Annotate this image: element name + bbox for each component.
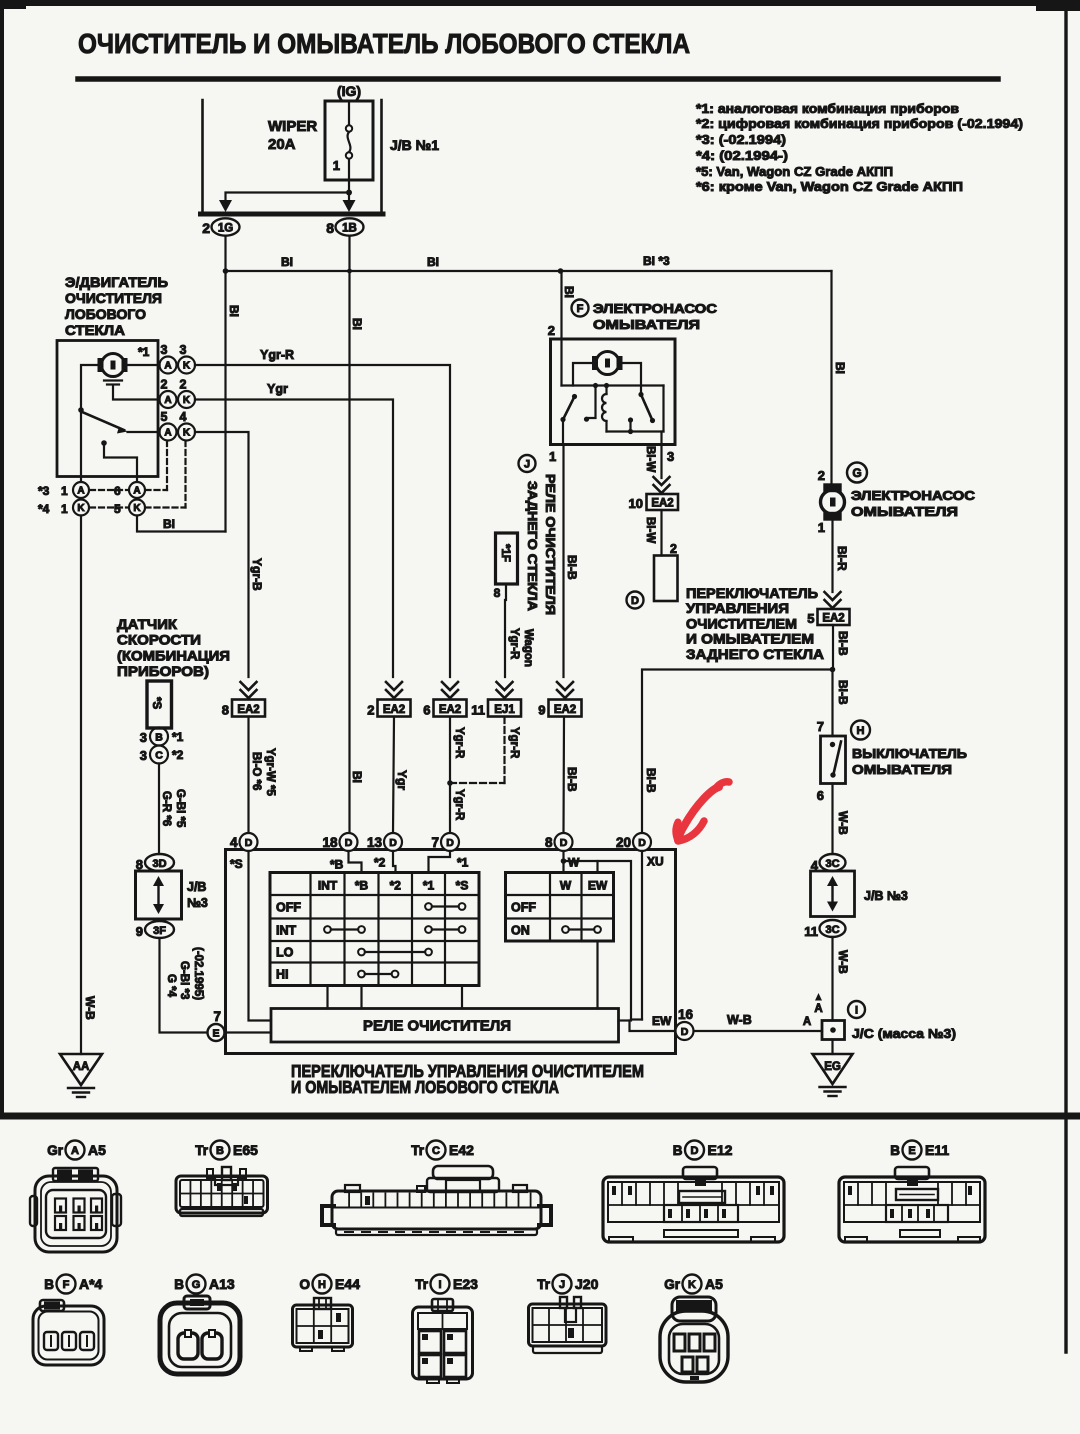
svg-text:9: 9 [136,924,143,939]
svg-text:D: D [560,837,568,849]
svg-text:8: 8 [494,586,501,600]
wire branch to 20D [642,670,833,834]
svg-text:W-B: W-B [727,1013,752,1027]
wire relay to D16 (EW) [619,1019,632,1021]
connector 9 3F [145,921,174,938]
connector letter I [848,1001,865,1018]
svg-text:LO: LO [276,945,294,959]
wiper switch outer box [226,850,676,1054]
wire 3F to E [160,938,208,1033]
svg-text:2: 2 [548,323,555,338]
svg-text:Ygr-R: Ygr-R [453,727,465,759]
title underline [78,76,998,82]
svg-text:BI-B: BI-B [836,631,850,656]
svg-text:Ygr-R: Ygr-R [453,789,465,821]
thick separator line above connector chart [0,1113,1080,1120]
svg-text:C: C [432,1145,440,1157]
right internal vertical [662,386,664,432]
svg-text:G-R *6: G-R *6 [160,791,172,826]
wire below 8EA2 [247,717,249,833]
page frame right border [1064,0,1067,1352]
svg-text:H: H [857,725,865,737]
dashed links K row [90,506,129,508]
wire to washer switch H [831,670,833,737]
wire jumper to 1G [226,193,350,201]
connector 5 EA2 [818,609,850,625]
J/B No3 box (right) [811,871,855,917]
contact ON row [569,928,594,930]
connector 4 D [240,833,258,851]
svg-text:BI: BI [350,318,364,330]
svg-text:ВЫКЛЮЧАТЕЛЬ: ВЫКЛЮЧАТЕЛЬ [852,746,967,761]
connector pin 2 1G [212,218,240,235]
wire D16 to J/C (W-B) [694,1030,823,1032]
svg-text:*1: аналоговая комбинация приб: *1: аналоговая комбинация приборов [696,101,959,116]
svg-text:*6: кроме Van, Wagon CZ Grade: *6: кроме Van, Wagon CZ Grade АКПП [696,179,963,194]
svg-text:J/B: J/B [187,880,206,894]
svg-text:ОМЫВАТЕЛЯ: ОМЫВАТЕЛЯ [593,317,700,332]
svg-text:A: A [133,486,140,497]
connector 16 D [676,1022,694,1040]
connector box *1F [496,533,518,584]
J/B No1 bracket left [201,100,204,212]
wire BI motor to 1G wire [137,516,226,532]
arrow into 9 EA2 [557,682,573,690]
wire W pin to table [562,851,564,873]
arrow into 11 EJ1 [497,682,513,690]
arrow into 5 EA2 [825,592,841,600]
svg-text:E42: E42 [449,1142,474,1158]
scan corner artifact left [0,0,26,9]
wire W node to EW column [564,861,632,1020]
svg-text:EA2: EA2 [554,704,576,716]
svg-text:*4: *4 [38,502,50,516]
svg-text:BI-O *6: BI-O *6 [250,752,262,790]
svg-text:W: W [568,856,580,870]
svg-text:INT: INT [276,923,297,937]
svg-text:11: 11 [804,924,818,939]
wire motor to pin A3 [125,364,160,366]
wire below 6EA2 [449,717,451,833]
svg-text:BI *3: BI *3 [643,254,670,268]
svg-text:BI: BI [833,362,847,374]
connector letter E [208,1024,225,1041]
svg-text:O: O [299,1277,310,1292]
svg-text:*3: (-02.1994): *3: (-02.1994) [696,132,786,147]
svg-text:A: A [164,428,171,439]
wire pump G down [831,520,833,593]
svg-text:10: 10 [629,496,643,511]
washer switch H box [821,736,846,784]
connector 13 D [384,833,402,851]
svg-text:I: I [855,1004,858,1016]
svg-text:ДАТЧИК: ДАТЧИК [117,616,177,632]
wire from fuse to junction [348,180,350,193]
pin 3/3 A,K circles [160,357,177,374]
svg-text:1: 1 [61,484,68,498]
svg-text:Gr: Gr [47,1143,64,1158]
connector 11 EJ1 [488,700,521,717]
svg-text:E44: E44 [335,1276,360,1292]
svg-text:B: B [216,1145,224,1157]
left switch contact and lever [572,394,577,399]
svg-text:D: D [681,1026,689,1038]
svg-text:*B: *B [330,858,344,872]
svg-text:*3: *3 [38,484,50,498]
svg-text:A*4: A*4 [79,1276,103,1292]
svg-text:F: F [63,1279,70,1291]
svg-text:ЭЛЕКТРОНАСОС: ЭЛЕКТРОНАСОС [851,488,976,503]
svg-text:BI-R: BI-R [835,546,849,571]
table stubs to relay [326,986,328,1009]
J/B No3 box (left) [136,871,182,919]
svg-text:5: 5 [807,611,814,626]
svg-text:BI-B: BI-B [644,768,658,793]
svg-text:8: 8 [545,835,553,850]
svg-text:ON: ON [511,924,530,938]
junction node [346,190,352,196]
wire 1G down (BI) [224,236,226,532]
svg-text:E11: E11 [925,1142,949,1158]
svg-text:9: 9 [538,703,545,718]
bottom connector circles 1A,1K,6A,5K [73,482,89,498]
svg-text:3: 3 [140,748,147,763]
svg-text:A5: A5 [88,1142,106,1158]
wire BI horizontal bus [226,270,832,272]
relay coil [605,386,607,395]
svg-text:BI: BI [163,517,175,531]
svg-text:BI: BI [562,286,576,298]
svg-text:ПЕРЕКЛЮЧАТЕЛЬ: ПЕРЕКЛЮЧАТЕЛЬ [686,586,818,601]
wiper relay box (РЕЛЕ ОЧИСТИТЕЛЯ) [271,1009,619,1043]
svg-text:B: B [174,1277,184,1292]
svg-text:Э/ДВИГАТЕЛЬ: Э/ДВИГАТЕЛЬ [65,274,168,290]
svg-text:BI-B: BI-B [836,680,850,705]
svg-text:INT: INT [318,879,338,893]
svg-text:5: 5 [161,410,168,424]
svg-text:EW: EW [652,1014,672,1028]
svg-text:F: F [577,303,584,315]
arrow into 10 EA2 [654,477,670,485]
svg-text:5: 5 [114,502,121,516]
wire sensor down [158,764,160,855]
svg-text:Tr: Tr [195,1143,209,1158]
svg-text:*S: *S [230,857,243,871]
svg-text:*S: *S [150,697,162,709]
svg-text:*5: Van, Wagon CZ Grade АКПП: *5: Van, Wagon CZ Grade АКПП [696,164,893,179]
svg-text:G *4: G *4 [165,974,177,998]
svg-text:A: A [803,1016,811,1028]
svg-text:ОЧИСТИТЕЛЕМ: ОЧИСТИТЕЛЕМ [686,616,797,631]
svg-text:ЛОБОВОГО: ЛОБОВОГО [65,306,146,322]
svg-text:A: A [71,1145,79,1157]
svg-text:BI-B: BI-B [565,555,579,580]
svg-text:№3: №3 [187,896,208,910]
svg-text:РЕЛЕ ОЧИСТИТЕЛЯ: РЕЛЕ ОЧИСТИТЕЛЯ [363,1018,511,1035]
connector letter G [847,463,867,483]
svg-text:XU: XU [647,855,664,869]
svg-text:8: 8 [326,220,334,236]
svg-text:A: A [814,1003,822,1015]
wire *1 pin to table [429,851,451,873]
svg-text:EA2: EA2 [822,613,844,625]
svg-text:B: B [44,1277,54,1292]
connector letter J [519,455,536,472]
svg-text:Tr: Tr [537,1277,551,1292]
svg-text:E23: E23 [453,1276,478,1292]
svg-text:И ОМЫВАТЕЛЕМ ЛОБОВОГО СТЕКЛА: И ОМЫВАТЕЛЕМ ЛОБОВОГО СТЕКЛА [291,1077,559,1097]
pump motor symbol [596,352,619,375]
wire to J/C [831,937,833,1021]
wire 1F down to EJ1 [505,584,507,600]
svg-text:EA2: EA2 [383,704,405,716]
svg-text:J: J [559,1279,565,1291]
park contact node [101,440,107,446]
svg-text:B: B [673,1143,683,1158]
svg-text:20: 20 [616,835,631,850]
svg-text:D: D [345,837,353,849]
svg-text:8: 8 [222,703,229,718]
wire *S pin down left side [249,851,272,1021]
svg-text:(-02.1995): (-02.1995) [192,947,204,1000]
svg-text:Tr: Tr [411,1143,425,1158]
bottom internal bus [607,430,664,432]
svg-text:A: A [164,395,171,406]
svg-text:*1F: *1F [499,544,511,562]
svg-text:ОМЫВАТЕЛЯ: ОМЫВАТЕЛЯ [851,504,958,519]
wire Ygr-B (pin K5 to 8EA2) [195,432,249,677]
connector 2 EA2 [378,700,411,717]
pin 1 wire down to 9 EA2 [562,420,564,445]
svg-text:ОМЫВАТЕЛЯ: ОМЫВАТЕЛЯ [852,762,952,777]
svg-text:J20: J20 [575,1276,599,1292]
connector 18 D [340,833,358,851]
svg-text:4: 4 [230,835,238,850]
connector 4 3C [820,854,846,871]
NO contact branch [587,386,596,419]
contacts INT row [331,928,358,930]
svg-text:Tr: Tr [415,1277,429,1292]
wire H down [831,784,833,855]
connector 6 EA2 [434,700,467,717]
svg-text:E: E [212,1028,219,1040]
svg-text:Ygr: Ygr [395,770,409,790]
wiper switch contact table [270,873,479,986]
svg-text:(КОМБИНАЦИЯ: (КОМБИНАЦИЯ [117,647,230,663]
svg-text:*B: *B [355,879,369,893]
J/C junction box [822,1021,845,1040]
connector letter D [627,592,644,609]
svg-text:E: E [908,1145,915,1157]
svg-text:K: K [133,503,141,514]
svg-text:6: 6 [817,788,824,803]
J/B No1 bottom bus bar [201,212,384,217]
svg-text:BI-W: BI-W [644,446,656,472]
svg-text:Gr: Gr [664,1277,681,1292]
svg-text:D: D [245,837,253,849]
svg-text:*4: (02.1994-): *4: (02.1994-) [696,148,788,163]
svg-text:1: 1 [333,158,340,173]
wire park contact to A6 [104,443,137,482]
connector 3B *1 [150,728,168,746]
contacts HI row [365,973,392,975]
svg-text:W-B: W-B [83,996,97,1020]
svg-text:*1: *1 [138,345,150,359]
dashed links A row [90,489,129,491]
svg-text:1B: 1B [342,223,357,235]
wire Ygr (pin K2 to 2EA2) [195,400,393,678]
pin 3 wire down to 10 EA2 [660,432,662,479]
svg-text:EA2: EA2 [439,704,461,716]
red hand-drawn arrow [676,782,729,841]
fuse box WIPER 20A [325,101,373,180]
connector 8 3D [145,854,174,871]
svg-text:EG: EG [824,1061,841,1073]
svg-text:WIPER: WIPER [268,118,317,135]
svg-text:*1: *1 [423,879,435,893]
J/B No1 bracket right [380,100,383,212]
wire motor right brush [619,363,641,392]
svg-text:СКОРОСТИ: СКОРОСТИ [117,632,201,648]
svg-text:11: 11 [471,703,485,718]
svg-text:13: 13 [367,835,383,850]
svg-text:2: 2 [202,220,210,236]
svg-text:2: 2 [670,542,677,556]
junction with EJ1 branch [447,780,453,786]
washer pump F box [551,339,676,445]
svg-text:I: I [438,1279,441,1291]
svg-text:2: 2 [818,468,825,483]
wire below 5EA2 [832,625,834,670]
connector pin 8 1B [336,218,364,235]
svg-text:K: K [77,503,85,514]
connector 11 3C [820,920,846,937]
svg-text:ЗАДНЕГО СТЕКЛА: ЗАДНЕГО СТЕКЛА [525,481,539,611]
washer pump G motor symbol [825,485,841,492]
svg-text:3D: 3D [152,858,166,870]
svg-text:ЭЛЕКТРОНАСОС: ЭЛЕКТРОНАСОС [593,301,718,316]
svg-text:УПРАВЛЕНИЯ: УПРАВЛЕНИЯ [686,601,789,616]
wire E to relay [225,1031,272,1033]
wire motor brush left down [81,365,102,482]
wire *B pin to table [349,851,362,873]
connector 8 D [555,833,573,851]
internal bus [562,384,664,386]
svg-text:BI: BI [427,255,439,269]
svg-text:РЕЛЕ ОЧИСТИТЕЛЯ: РЕЛЕ ОЧИСТИТЕЛЯ [543,474,557,615]
pin 2/2 A,K circles [160,391,177,408]
svg-text:7: 7 [213,1009,221,1024]
speed sensor box *S [147,681,172,728]
arrow into 8 EA2 [241,682,257,690]
svg-text:16: 16 [678,1007,694,1022]
svg-text:BI: BI [227,305,241,317]
svg-text:A: A [77,486,84,497]
svg-text:Wagon: Wagon [522,629,534,667]
wire to washer pump G (BI) [830,271,832,485]
wire 1B down (BI) [348,236,350,833]
fuse symbol [348,101,350,125]
junction node park switch [78,407,84,413]
svg-text:7: 7 [817,719,824,734]
svg-text:H: H [318,1279,326,1291]
svg-text:*S: *S [456,879,469,893]
connector 10 EA2 [647,494,679,510]
svg-text:AA: AA [73,1061,90,1073]
svg-text:ПРИБОРОВ): ПРИБОРОВ) [117,663,209,679]
svg-text:D: D [638,837,646,849]
svg-text:W: W [560,879,572,893]
svg-text:3: 3 [140,730,147,745]
svg-text:BI-B: BI-B [565,767,579,792]
svg-text:BI: BI [281,255,293,269]
connector 9 EA2 [549,700,582,717]
svg-text:*2: *2 [390,879,402,893]
svg-text:J/B №1: J/B №1 [390,137,439,153]
svg-text:2: 2 [367,703,374,718]
svg-text:BI-W: BI-W [644,517,656,543]
svg-text:ЗАДНЕГО СТЕКЛА: ЗАДНЕГО СТЕКЛА [686,647,824,662]
connector 7 D [441,833,459,851]
page frame top border [0,0,1080,6]
svg-text:18: 18 [322,835,338,850]
svg-text:ОЧИСТИТЕЛЯ: ОЧИСТИТЕЛЯ [65,290,162,306]
dashed wire below 11EJ1 [503,717,505,783]
wiper motor box [57,341,158,477]
svg-text:2: 2 [161,378,168,392]
svg-text:J: J [524,458,530,470]
wire W-B to ground [80,516,82,1055]
ground EG [831,1040,833,1055]
svg-text:*2: *2 [172,748,184,762]
svg-text:A13: A13 [209,1276,235,1292]
arrow into bus (right) [343,200,356,212]
washer table stub to relay [596,941,598,1009]
junction to rear washer branch [830,667,836,673]
svg-text:EJ1: EJ1 [494,704,515,716]
right switch contact and lever [638,392,643,397]
svg-text:EA2: EA2 [651,498,673,510]
svg-text:G-BI *3: G-BI *3 [178,961,190,999]
contacts OFF row [432,905,459,907]
svg-text:EA2: EA2 [237,704,259,716]
svg-text:4: 4 [180,410,187,424]
svg-text:J/B №3: J/B №3 [864,889,908,903]
svg-text:D: D [389,837,397,849]
motor M1 symbol [102,354,125,377]
svg-text:Ygr-R: Ygr-R [260,348,294,362]
svg-text:D: D [691,1145,699,1157]
svg-text:A5: A5 [705,1276,723,1292]
wire motor bottom to pin A2 [113,387,160,400]
svg-text:20A: 20A [268,136,296,153]
svg-text:1G: 1G [218,223,233,235]
svg-text:K: K [183,428,191,439]
wire pin2 from BI bus [560,271,562,386]
svg-text:СТЕКЛА: СТЕКЛА [65,322,125,338]
svg-text:G: G [852,466,861,480]
connector letter F [572,300,589,317]
svg-text:ОЧИСТИТЕЛЬ И ОМЫВАТЕЛЬ ЛОБОВОГ: ОЧИСТИТЕЛЬ И ОМЫВАТЕЛЬ ЛОБОВОГО СТЕКЛА [78,28,690,59]
svg-text:B: B [155,731,163,743]
svg-text:1: 1 [818,520,825,535]
svg-text:(IG): (IG) [337,83,361,99]
svg-text:3C: 3C [825,858,839,870]
svg-text:И ОМЫВАТЕЛЕМ: И ОМЫВАТЕЛЕМ [686,632,814,647]
connector 8 EA2 [232,700,265,717]
node A marks [815,993,822,1001]
svg-text:J/C (масса №3): J/C (масса №3) [852,1026,956,1041]
